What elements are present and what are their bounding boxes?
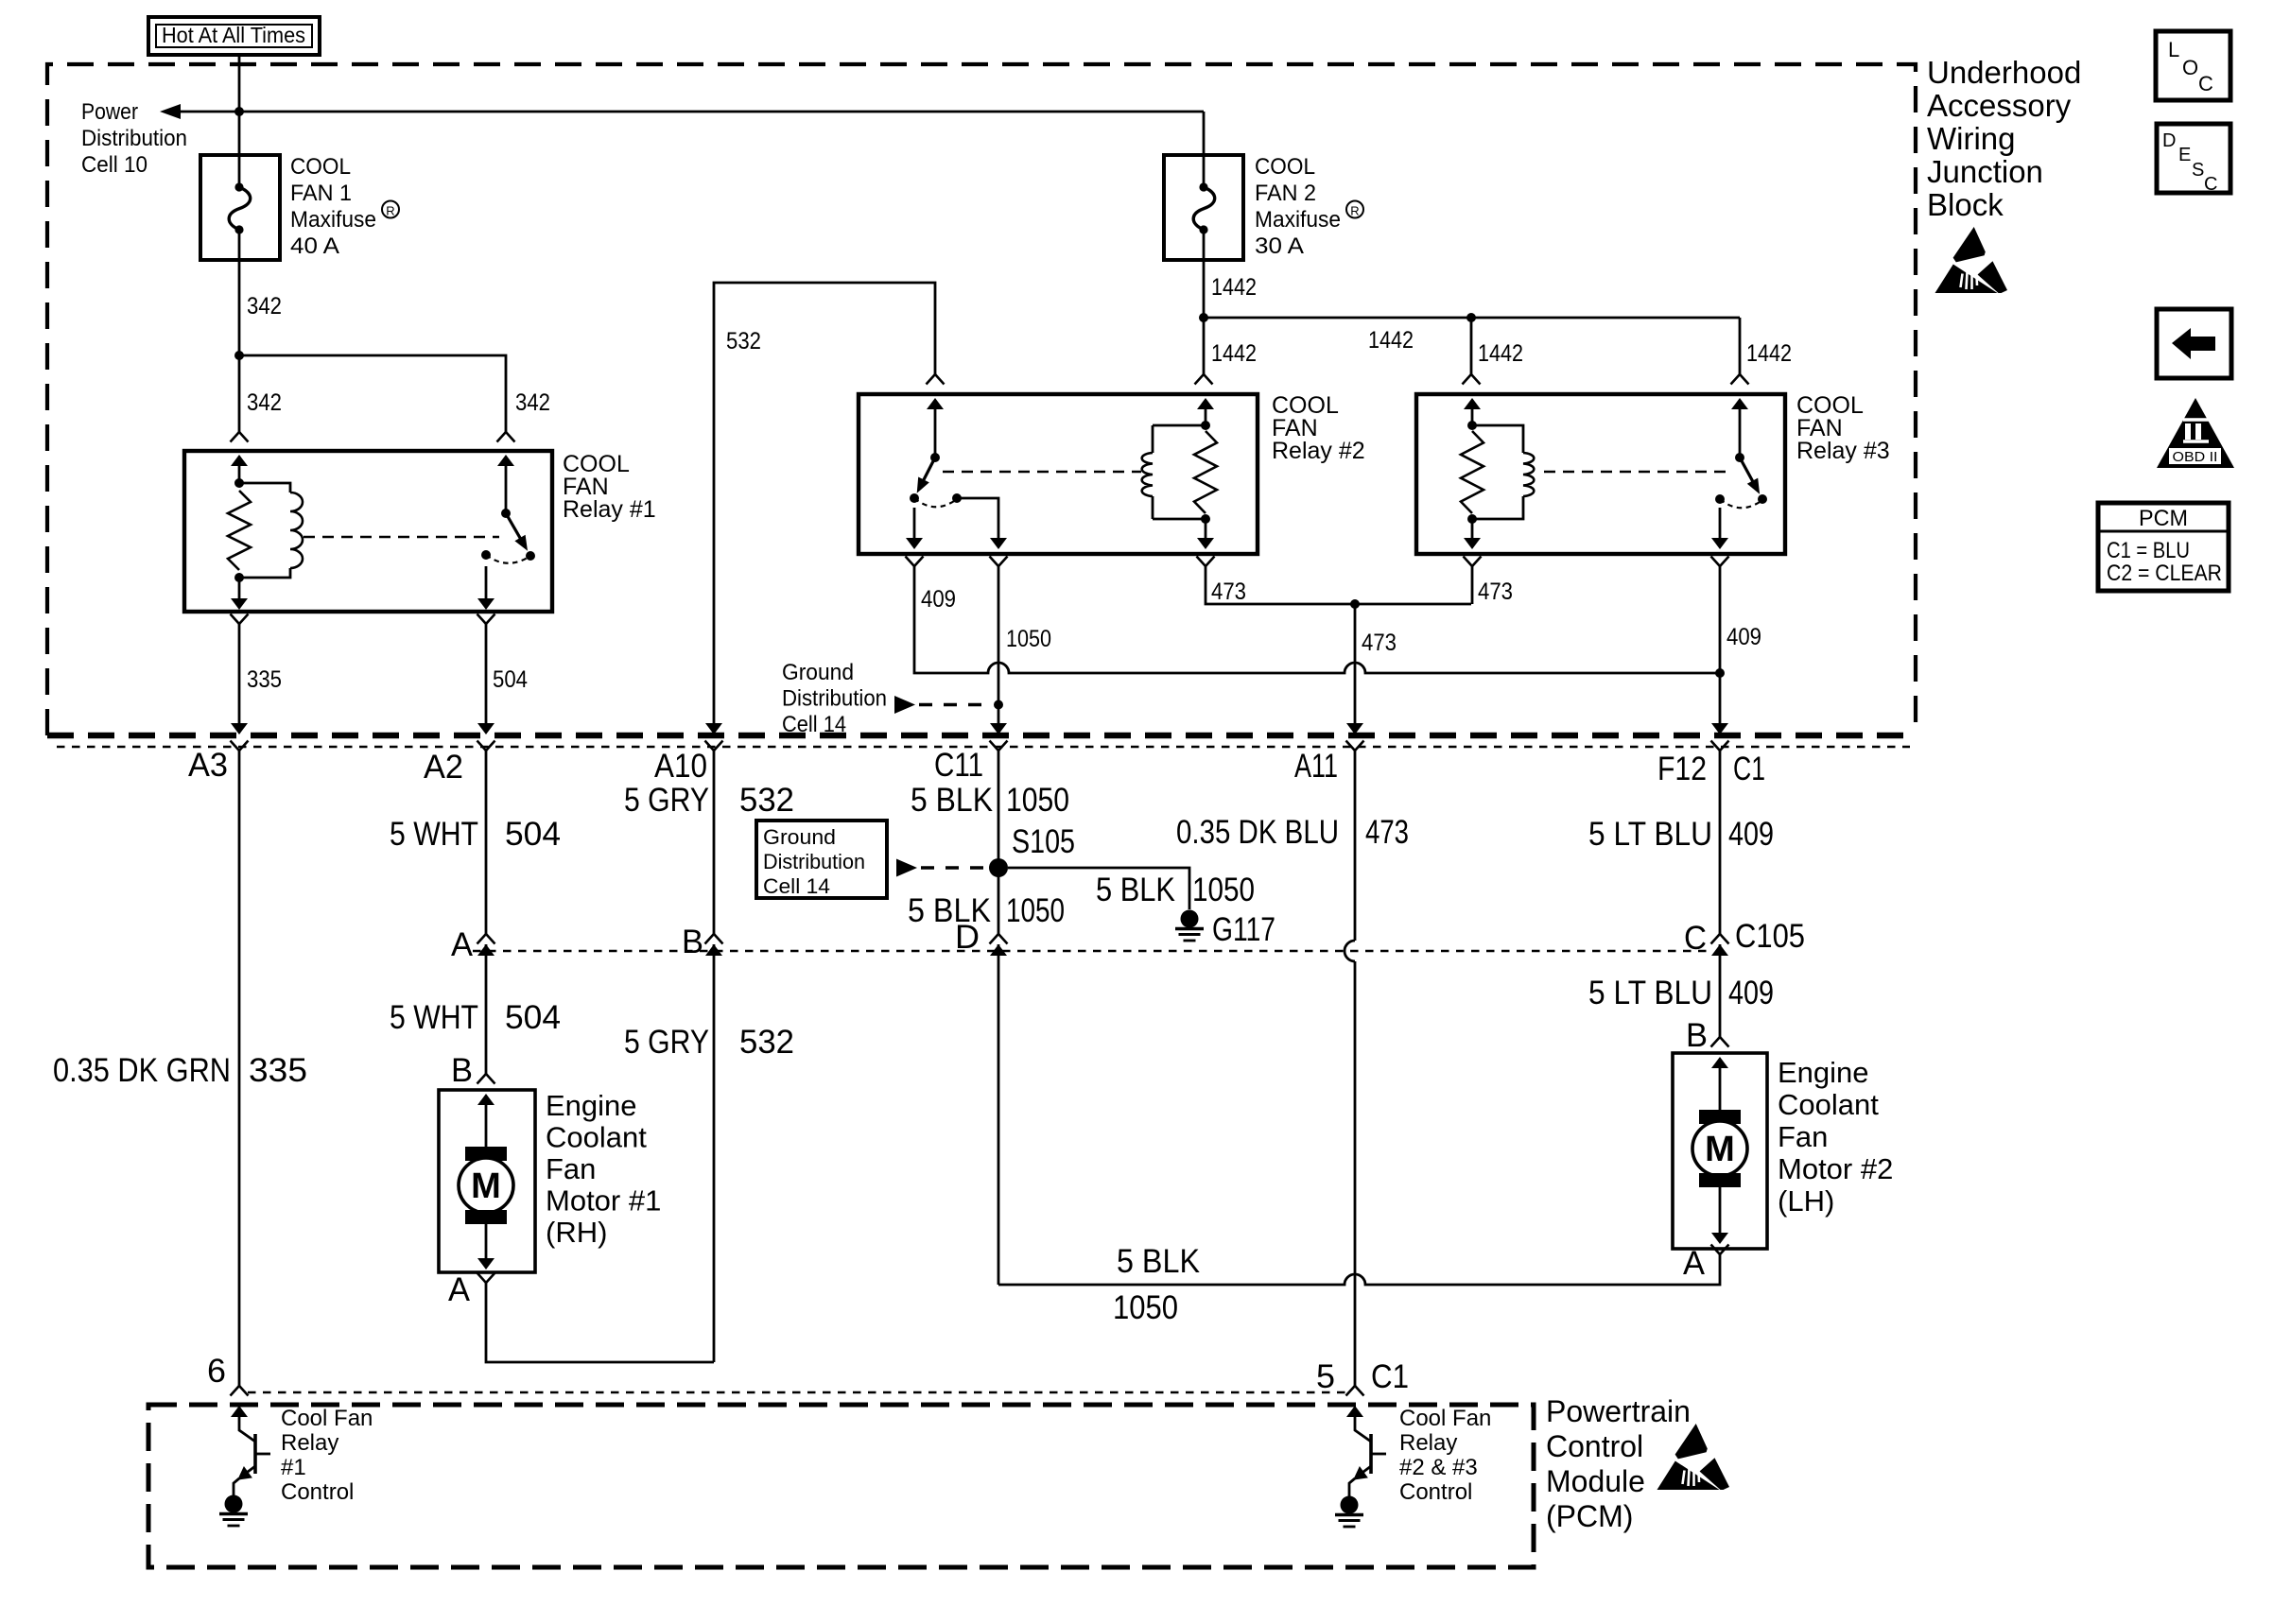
wire wire 532 C105 B down to motor M1 A link (713, 944, 716, 1362)
wire relay K1 coil branch top (239, 483, 290, 492)
wire wire 1442 leg to relay K3 switch (1739, 318, 1742, 374)
motor M1 A pin arrow (477, 1258, 495, 1270)
svg-text:532: 532 (726, 328, 761, 354)
svg-text:Relay #1: Relay #1 (563, 496, 656, 523)
wire wire 504 A2 down to C105 A (485, 751, 488, 934)
fork below junction block at C11 (990, 741, 1008, 752)
relay K2 coil top node (1201, 421, 1210, 430)
relay K2 1050 output arrow (990, 538, 1007, 549)
coil of relay K2 (1142, 453, 1153, 496)
svg-text:R: R (1350, 204, 1359, 218)
svg-text:A: A (1683, 1245, 1706, 1282)
wire relay K2 actuation dashed link (943, 471, 1141, 473)
svg-text:Power: Power (81, 99, 138, 125)
svg-text:0.35 DK BLU: 0.35 DK BLU (1176, 814, 1339, 851)
svg-text:Fan: Fan (546, 1152, 596, 1185)
svg-text:Ground: Ground (782, 660, 854, 685)
svg-text:FAN 2: FAN 2 (1255, 181, 1316, 206)
relay K1 COOL FAN Relay #1 box (184, 451, 552, 612)
wire wire 473 relay K3 coil leg down (1471, 566, 1474, 604)
svg-text:1442: 1442 (1478, 340, 1523, 367)
relay K3 coil bottom node (1467, 514, 1477, 524)
svg-text:A10: A10 (654, 748, 707, 785)
svg-text:S: S (2192, 160, 2204, 181)
svg-text:Distribution: Distribution (763, 850, 865, 873)
svg-text:409: 409 (921, 586, 956, 613)
svg-text:B: B (1686, 1017, 1708, 1054)
wire wire 473 A11 down with hop over C105 row (1354, 751, 1357, 941)
relay K3 switch feed arrow (1731, 398, 1748, 409)
fork below junction block at A10 (705, 741, 723, 752)
svg-text:C1: C1 (1371, 1358, 1409, 1395)
wire relay K3 coil branch bottom (1472, 496, 1523, 519)
svg-text:6: 6 (207, 1353, 226, 1390)
fork below motor M2 pin A (1711, 1245, 1729, 1255)
ESD symbol at junction block (1935, 227, 2008, 293)
wire PCM connector thin dashed row (248, 1391, 1348, 1394)
relay K3 coil top node (1467, 421, 1477, 430)
fork below junction block at A2 (477, 741, 495, 752)
svg-text:504: 504 (505, 816, 561, 853)
svg-text:5 GRY: 5 GRY (624, 782, 709, 819)
transistor Q2 collector arrow (1346, 1406, 1363, 1417)
relay K3 switch pivot (1735, 453, 1744, 462)
svg-text:C: C (2204, 174, 2217, 195)
relay K2 switch blade (922, 458, 935, 483)
motor M2 B pin arrow (1711, 1057, 1728, 1068)
svg-text:A: A (448, 1271, 471, 1308)
svg-text:A: A (451, 926, 474, 963)
svg-text:Distribution: Distribution (782, 686, 887, 712)
svg-text:5 GRY: 5 GRY (624, 1024, 709, 1061)
wire wire 1442 leg to relay K2 coil (1203, 318, 1206, 374)
svg-text:Control: Control (1399, 1479, 1472, 1505)
relay K3 coil feed arrow (1464, 398, 1481, 409)
arrow below C105 pin B (705, 944, 722, 956)
arrow wire 504 into connector row (477, 723, 495, 734)
fuse F1 lower terminal (234, 225, 243, 233)
relay K2 switch feed arrow (927, 398, 944, 409)
wire relay K1 switch feed lead (505, 464, 508, 513)
wire wire 532 motor M1 A return to C105 B leg (486, 1283, 714, 1362)
wire motor M2 top lead (1719, 1066, 1722, 1110)
wire motor M2 bottom lead (1719, 1187, 1722, 1235)
svg-text:M: M (471, 1166, 501, 1206)
relay K1 coil top node (234, 478, 244, 488)
resistor in relay K3 (1461, 431, 1484, 513)
fork below junction block at A3 (231, 741, 249, 752)
LOC legend box (2156, 31, 2230, 100)
wire wire 473 below hop down to PCM pin 5 (1354, 961, 1357, 1386)
svg-text:COOL: COOL (290, 154, 351, 180)
svg-text:C2 = CLEAR: C2 = CLEAR (2107, 561, 2222, 586)
relay K2 COOL FAN Relay #2 box (859, 394, 1258, 554)
svg-text:342: 342 (515, 389, 550, 416)
svg-text:Relay: Relay (1399, 1430, 1457, 1456)
svg-text:Cool Fan: Cool Fan (1399, 1406, 1491, 1431)
svg-text:Engine: Engine (546, 1089, 637, 1122)
arrow wire 1050 into connector row (990, 723, 1007, 734)
Powertrain Control Module dashed enclosure (148, 1405, 1534, 1567)
motor M2 A pin arrow (1711, 1233, 1728, 1244)
svg-text:L: L (2168, 38, 2179, 61)
fork above relay K1 switch pin (497, 432, 515, 442)
svg-text:Hot At All Times: Hot At All Times (162, 23, 305, 47)
svg-text:COOL: COOL (1255, 154, 1315, 180)
relay K2 alternate-throw dashed arc (914, 498, 957, 507)
svg-text:5 WHT: 5 WHT (390, 816, 478, 853)
svg-text:409: 409 (1728, 816, 1774, 853)
fork above relay K1 coil pin (231, 432, 249, 442)
fork above C105 pin A (477, 934, 495, 944)
svg-text:504: 504 (493, 666, 528, 693)
svg-text:A11: A11 (1294, 748, 1338, 785)
svg-text:342: 342 (247, 389, 282, 416)
svg-text:342: 342 (247, 293, 282, 320)
wire relay K2 coil top lead (1152, 425, 1154, 453)
fork at PCM pin 5 (1346, 1386, 1364, 1396)
relay K2 coil feed arrow (1197, 398, 1214, 409)
svg-text:Cell 14: Cell 14 (782, 712, 846, 737)
registered trademark mark for Maxifuse F1 (382, 201, 399, 218)
svg-text:(RH): (RH) (546, 1216, 607, 1249)
wire wire 1442 distribution bus (1204, 317, 1740, 320)
arrow wire 409 into connector row (1711, 723, 1728, 734)
fork at PCM pin 6 (231, 1386, 249, 1396)
svg-text:0.35 DK GRN: 0.35 DK GRN (53, 1052, 231, 1089)
wire wire 342 down to relay K1 coil (238, 355, 241, 432)
svg-text:Coolant: Coolant (546, 1121, 647, 1154)
svg-text:Coolant: Coolant (1778, 1088, 1879, 1121)
wire relay K1 actuation dashed link (304, 536, 499, 538)
fork below relay K3 coil pin (1464, 557, 1482, 567)
wire wire 409 F12 down to C105 C (1719, 751, 1722, 934)
fork below relay K1 switch pin (477, 614, 495, 625)
svg-text:#2 & #3: #2 & #3 (1399, 1455, 1478, 1480)
svg-text:Maxifuse: Maxifuse (1255, 207, 1341, 233)
svg-text:FAN 1: FAN 1 (290, 181, 352, 206)
relay K2 common contact (910, 493, 919, 503)
relay K2 coil bottom node (1201, 514, 1210, 524)
arrow wire 335 into connector row (231, 723, 248, 734)
fork below motor M1 pin A (477, 1273, 495, 1284)
fork above relay K3 coil pin (1463, 374, 1481, 385)
svg-text:Control: Control (281, 1479, 354, 1505)
fork below relay K2 common pin (906, 557, 924, 567)
wire motor M1 bottom lead (485, 1224, 488, 1260)
svg-text:1442: 1442 (1211, 340, 1257, 367)
svg-text:Fan: Fan (1778, 1120, 1828, 1153)
Hot At All Times power tag box (148, 17, 320, 55)
transistor Q2 base bar (1369, 1434, 1373, 1474)
svg-text:OBD II: OBD II (2173, 449, 2218, 465)
svg-text:Module: Module (1546, 1464, 1645, 1498)
wire 473 hop over C105 row (1345, 941, 1355, 961)
wire relay K3 switch feed lead (1739, 407, 1742, 458)
fork below relay K2 coil pin (1197, 557, 1215, 567)
wire wire 409 relay K3 down to F12 (1719, 566, 1722, 724)
fuse F2 lower terminal (1199, 225, 1207, 233)
svg-text:409: 409 (1728, 975, 1774, 1011)
svg-text:504: 504 (505, 999, 561, 1036)
wire transistor Q2 base lead (1371, 1453, 1386, 1456)
relay K1 switch feed arrow (497, 455, 514, 466)
svg-text:30 A: 30 A (1255, 233, 1304, 259)
svg-text:C: C (2198, 72, 2213, 95)
wire dashed reference link upper (919, 703, 989, 706)
PCM connector color legend box (2098, 503, 2229, 591)
svg-text:C1: C1 (1733, 751, 1765, 787)
fork below relay K1 coil pin (231, 614, 249, 625)
fork above relay K3 switch pin (1731, 374, 1749, 385)
coil of relay K3 (1523, 453, 1534, 496)
relay K2 switch pivot (930, 453, 940, 462)
transistor Q1 emitter arrowhead (238, 1467, 252, 1479)
svg-text:Maxifuse: Maxifuse (290, 207, 376, 233)
relay K3 common contact (1715, 494, 1725, 504)
fork above relay K2 switch pin (927, 374, 945, 385)
arrow below C105 pin D (990, 944, 1007, 956)
relay K1 switch pivot (501, 509, 511, 518)
wire drop from bus to fuse F2 (1203, 112, 1206, 187)
svg-text:1050: 1050 (1006, 892, 1065, 929)
wire relay K2 switch feed lead (934, 407, 937, 458)
transistor Q2 emitter arrowhead (1354, 1467, 1367, 1479)
back-arrow icon (2172, 328, 2215, 359)
wire 1050 motor M2 A to splice leg with hop over 473 (998, 1254, 1720, 1285)
svg-text:5 BLK: 5 BLK (911, 782, 993, 819)
svg-text:1442: 1442 (1368, 327, 1414, 354)
svg-text:A3: A3 (188, 747, 228, 784)
motor M1 commutator bottom block (465, 1210, 507, 1224)
svg-text:R: R (386, 204, 394, 218)
dashed-reference arrowhead boxed (896, 859, 917, 877)
arrow below C105 pin C (1711, 944, 1728, 956)
transistor Q1 collector arrow (231, 1406, 248, 1417)
wire wire 335 relay K1 to A3 (238, 624, 241, 724)
svg-text:532: 532 (739, 1024, 794, 1061)
fork above C105 pin C (1711, 934, 1729, 944)
svg-text:5 BLK: 5 BLK (1096, 872, 1175, 908)
svg-text:Control: Control (1546, 1429, 1643, 1463)
svg-text:Block: Block (1927, 187, 2004, 222)
relay K3 common output arrow (1711, 538, 1728, 549)
fuse F2 upper terminal (1199, 182, 1207, 191)
relay K3 blade contact (1758, 494, 1767, 504)
wire wire 1442 fuse F2 down (1203, 230, 1206, 318)
relay K2 coil return arrow (1197, 538, 1214, 549)
svg-text:(PCM): (PCM) (1546, 1499, 1633, 1533)
svg-text:473: 473 (1478, 579, 1513, 605)
DESC legend box (2157, 124, 2230, 193)
motor M1 armature circle (459, 1158, 513, 1213)
svg-text:Engine: Engine (1778, 1056, 1869, 1089)
wire wire 1442 leg to relay K3 coil (1470, 318, 1473, 374)
wire transistor Q2 emitter lead (1360, 1466, 1371, 1475)
wire motor M1 top lead (485, 1103, 488, 1147)
ESD symbol at PCM (1657, 1424, 1730, 1490)
svg-text:Cell 10: Cell 10 (81, 152, 147, 178)
wire wire 473 coil returns tie (1206, 566, 1471, 604)
OBD II triangle symbol (2157, 398, 2234, 468)
junction 473 tie at A11 drop (1350, 599, 1360, 609)
relay K1 common contact (481, 550, 491, 560)
svg-text:Cell 14: Cell 14 (763, 874, 830, 898)
resistor in relay K1 (parallel with coil) (228, 491, 251, 570)
coil of relay K1 (290, 492, 303, 568)
svg-text:B: B (682, 924, 703, 960)
wire relay K2 coil top tie (1153, 424, 1206, 427)
relay K1 coil bottom node (234, 573, 244, 582)
relay K2 second throw contact (952, 493, 962, 503)
ground at transistor Q1 (225, 1495, 243, 1513)
resistor in relay K2 (1194, 431, 1217, 513)
back-arrow legend box (2157, 309, 2231, 378)
relay K1 switch blade (506, 513, 522, 541)
fuse F2 COOL FAN 2 Maxifuse 30 A box (1164, 155, 1243, 260)
svg-text:C105: C105 (1735, 918, 1805, 955)
svg-text:Relay: Relay (281, 1430, 338, 1456)
arrow below C105 pin A (477, 944, 495, 956)
motor M2 Engine Coolant Fan Motor #2 box (1673, 1053, 1767, 1249)
motor M1 Engine Coolant Fan Motor #1 box (439, 1090, 535, 1272)
svg-text:C1 = BLU: C1 = BLU (2107, 538, 2190, 563)
svg-text:O: O (2182, 56, 2198, 79)
fork below relay K2 1050 pin (990, 557, 1008, 567)
Underhood Accessory Wiring Junction Block dashed enclosure (47, 64, 1916, 735)
svg-text:Junction: Junction (1927, 154, 2043, 189)
svg-text:1442: 1442 (1211, 274, 1257, 301)
svg-text:Underhood: Underhood (1927, 55, 2081, 90)
svg-text:473: 473 (1365, 814, 1409, 851)
svg-text:B: B (451, 1052, 473, 1089)
svg-text:(LH): (LH) (1778, 1184, 1834, 1218)
junction 342 branch (234, 351, 244, 360)
svg-text:335: 335 (247, 666, 282, 693)
relay K3 alternate-throw dashed arc (1720, 499, 1762, 508)
transistor Q1 base bar (253, 1434, 257, 1474)
relay K2 common output arrow (906, 538, 923, 549)
motor M2 commutator bottom block (1699, 1173, 1741, 1187)
wire relay K3 coil branch top (1472, 425, 1523, 453)
wire connector row thin dashed line below junction block (57, 746, 1910, 749)
relay K3 COOL FAN Relay #3 box (1416, 394, 1785, 554)
fuse F1 upper terminal (234, 182, 243, 191)
arrow wire 473 into connector row (1346, 723, 1363, 734)
svg-text:Cool Fan: Cool Fan (281, 1406, 373, 1431)
fork above motor M2 pin B (1711, 1037, 1729, 1047)
fork below junction block at F12 (1711, 741, 1729, 752)
svg-text:Powertrain: Powertrain (1546, 1394, 1691, 1428)
wire transistor Q1 emitter lead (244, 1466, 255, 1475)
wire transistor Q2 collector lead (1355, 1415, 1371, 1442)
svg-text:F12: F12 (1657, 751, 1707, 787)
svg-text:1050: 1050 (1192, 872, 1255, 908)
svg-text:C11: C11 (934, 747, 983, 784)
svg-text:5 WHT: 5 WHT (390, 999, 478, 1036)
fork above relay K2 coil pin (1195, 374, 1213, 385)
svg-text:5 LT BLU: 5 LT BLU (1588, 975, 1712, 1011)
relay K1 blade contact (526, 551, 535, 561)
wire power distribution bus at top (180, 111, 1204, 113)
wire wire 342 fuse F1 to branch point (238, 230, 241, 355)
svg-text:Motor #2: Motor #2 (1778, 1152, 1893, 1185)
ground G117 (1181, 910, 1199, 928)
junction block bottom boundary thick dashed edge (47, 733, 1916, 739)
junction S-link on 1050 drop (994, 700, 1003, 710)
relay K3 coil return arrow (1464, 538, 1481, 549)
svg-text:Wiring: Wiring (1927, 121, 2016, 156)
svg-text:1050: 1050 (1113, 1289, 1178, 1326)
motor M2 armature circle (1692, 1121, 1747, 1176)
wire wire 409 C105 C down to motor M2 (1719, 944, 1722, 1037)
svg-text:1050: 1050 (1006, 626, 1051, 652)
wire transistor Q1 collector lead (239, 1415, 255, 1442)
motor M1 B pin arrow (477, 1094, 495, 1105)
svg-text:473: 473 (1211, 579, 1246, 605)
svg-text:Relay #3: Relay #3 (1796, 438, 1890, 464)
relay K1 coil return arrow to pin (231, 598, 248, 610)
relay K1 coil pin arrow (231, 455, 248, 466)
wire transistor Q2 emitter to ground (1349, 1478, 1355, 1496)
svg-text:A2: A2 (424, 749, 463, 786)
svg-text:E: E (2178, 145, 2191, 165)
svg-text:Motor #1: Motor #1 (546, 1184, 661, 1218)
svg-text:5 BLK: 5 BLK (908, 892, 991, 929)
wire wire 504 C105 to motor M1 (485, 944, 488, 1074)
wire relay K2 coil bottom lead (1152, 496, 1154, 519)
junction 409 run at F12 drop (1715, 668, 1725, 678)
Ground Distribution Cell 14 reference box (756, 821, 887, 898)
svg-text:S105: S105 (1012, 823, 1075, 860)
relay K1 alternate-throw dashed arc (486, 555, 530, 563)
wire transistor Q1 base lead (255, 1453, 270, 1456)
fuse F1 element S-curve (229, 187, 251, 230)
svg-text:D: D (2162, 130, 2176, 151)
junction 1442 at relay K3 coil drop (1466, 313, 1476, 322)
wire wire 1050 S105 branch to G117 (1008, 868, 1189, 909)
svg-text:Distribution: Distribution (81, 126, 187, 151)
wire wire 1050 relay K2 to C11 (998, 566, 1000, 724)
svg-text:5: 5 (1316, 1358, 1335, 1395)
wire wire 1050 C105 D down to splice run (998, 944, 1000, 1285)
fuse F2 element S-curve (1193, 187, 1215, 230)
wire wire 335 A3 down to PCM pin 6 (238, 751, 241, 1386)
wire 409 crossover run relay K2 to F12 drop (914, 566, 1720, 673)
arrowhead toward Power Distribution Cell 10 (160, 104, 181, 119)
wire dashed reference link boxed (921, 866, 985, 869)
wire relay K3 actuation dashed link (1544, 471, 1727, 473)
fork above C105 pin B (705, 934, 723, 944)
dashed-reference arrowhead upper (894, 696, 915, 714)
svg-text:532: 532 (739, 782, 794, 819)
wire connector row C105 thin dashed line (473, 950, 1713, 953)
fork above motor M1 pin B (477, 1074, 495, 1084)
svg-text:G117: G117 (1212, 911, 1275, 948)
wire wire 473 down to A11 (1354, 604, 1357, 724)
motor M1 commutator top block (465, 1147, 507, 1161)
svg-text:335: 335 (249, 1052, 307, 1089)
svg-text:Accessory: Accessory (1927, 88, 2072, 123)
arrow wire 532 into connector row (705, 723, 722, 734)
fork above C105 pin D (990, 934, 1008, 944)
wire wire 504 relay K1 to A2 (485, 624, 488, 724)
wire wire 532 A10 down to C105 B (713, 751, 716, 934)
svg-text:5 BLK: 5 BLK (1117, 1243, 1200, 1280)
motor M2 commutator top block (1699, 1110, 1741, 1124)
fuse F1 COOL FAN 1 Maxifuse 40 A box (200, 155, 280, 260)
svg-text:PCM: PCM (2139, 506, 2188, 531)
